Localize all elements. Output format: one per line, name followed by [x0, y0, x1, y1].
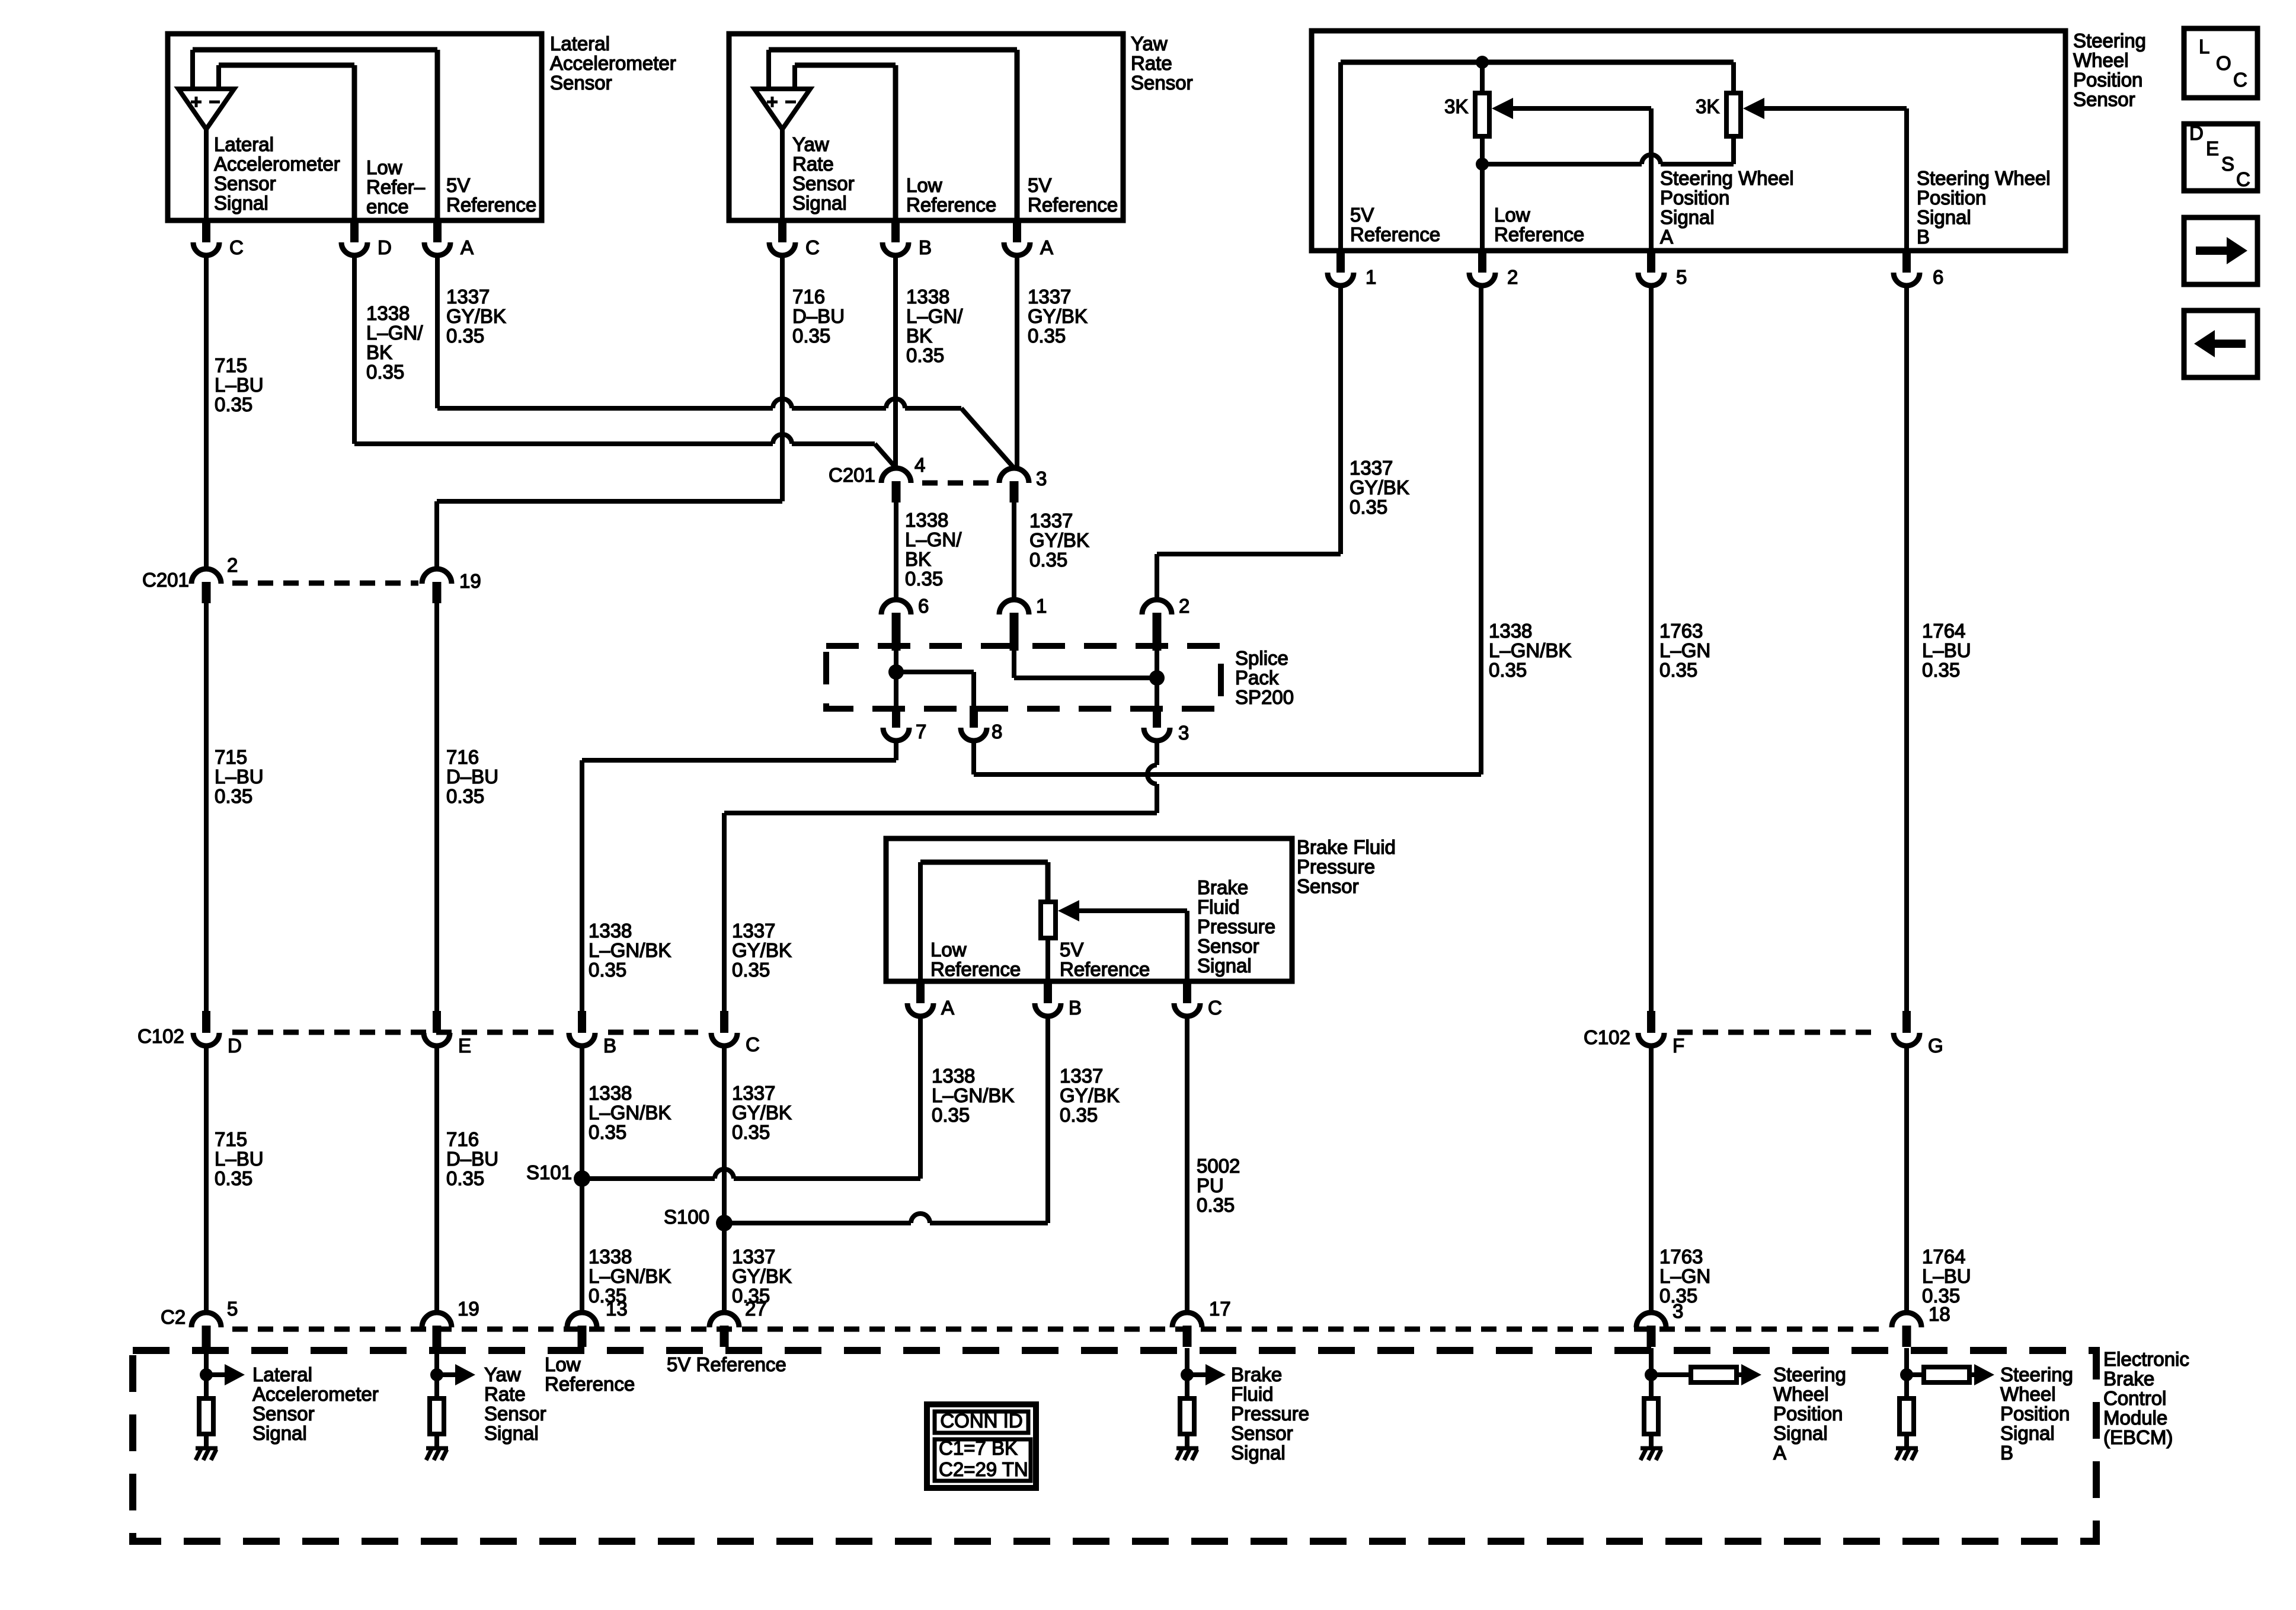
svg-text:A: A	[1773, 1442, 1786, 1464]
wiper arrow second 3K (signal B)	[1743, 98, 1764, 119]
svg-text:Reference: Reference	[1028, 194, 1118, 216]
connector pin 1 steering	[1336, 251, 1345, 273]
svg-text:5V: 5V	[1060, 939, 1083, 961]
svg-text:L–BU: L–BU	[1922, 1265, 1971, 1287]
svg-text:0.35: 0.35	[1350, 496, 1387, 518]
connector pin C yaw	[778, 220, 786, 242]
svg-text:C: C	[2236, 168, 2250, 190]
svg-text:Steering: Steering	[2000, 1363, 2073, 1385]
svg-text:L–BU: L–BU	[215, 374, 264, 396]
svg-text:0.35: 0.35	[732, 959, 770, 981]
dashed connector line C201 2-19	[232, 581, 418, 586]
svg-text:C102: C102	[137, 1025, 184, 1047]
wire 1763 steering pin5 to C102-F	[1649, 285, 1654, 1011]
svg-text:0.35: 0.35	[215, 393, 252, 415]
svg-text:Rate: Rate	[484, 1383, 526, 1405]
wiper arrow brake sensor	[1058, 900, 1079, 921]
wire S101 to brake A (hop over 1337)	[582, 1176, 715, 1181]
svg-text:BK: BK	[905, 548, 931, 570]
svg-text:L–GN: L–GN	[1659, 1265, 1710, 1287]
wire 1337 C102-C through S100 to C2-27	[722, 1046, 727, 1313]
svg-text:Steering: Steering	[2073, 30, 2146, 52]
svg-text:A: A	[1040, 236, 1053, 258]
wire: yaw signal from op-amp apex	[780, 129, 785, 220]
connector pin B yaw	[891, 220, 900, 242]
svg-text:3K: 3K	[1444, 95, 1468, 117]
svg-text:C1=7 BK: C1=7 BK	[939, 1437, 1018, 1459]
svg-text:0.35: 0.35	[905, 568, 943, 590]
svg-text:0.35: 0.35	[1659, 659, 1697, 681]
connector SP200 pin 3 (bottom)	[1153, 706, 1161, 728]
svg-text:B: B	[603, 1035, 616, 1057]
box: Electronic Brake Control Module EBCM (dashed)	[133, 1350, 2096, 1541]
wiper arrow first 3K (signal A)	[1492, 98, 1513, 119]
wire: steering low reference internal	[1480, 136, 1485, 251]
svg-text:716: 716	[446, 746, 479, 768]
svg-text:5002: 5002	[1197, 1155, 1240, 1177]
svg-text:3: 3	[1178, 722, 1189, 744]
svg-text:Steering: Steering	[1773, 1363, 1846, 1385]
svg-text:Sensor: Sensor	[550, 72, 612, 94]
wire: brake low ref internal	[918, 862, 923, 981]
splice internal low ref: 6-7-8	[894, 651, 898, 706]
svg-text:F: F	[1673, 1035, 1684, 1057]
svg-text:0.35: 0.35	[1197, 1194, 1235, 1216]
svg-text:Lateral: Lateral	[252, 1363, 312, 1385]
wire 1338 C201-4 to SP200-6	[894, 502, 898, 600]
connector C2 pin 27	[709, 1313, 739, 1327]
svg-text:S: S	[2221, 153, 2234, 175]
svg-text:18: 18	[1929, 1303, 1950, 1325]
svg-text:Pack: Pack	[1235, 667, 1279, 689]
connector SP200 pin 1	[999, 600, 1029, 614]
svg-text:Low: Low	[930, 939, 967, 961]
svg-text:1763: 1763	[1659, 1246, 1703, 1267]
svg-text:Yaw: Yaw	[484, 1363, 521, 1385]
svg-text:1: 1	[1366, 266, 1376, 288]
wire: lateral - terminal to low ref feed	[216, 65, 221, 89]
dashed connector line C102 D-E-B-C	[232, 1030, 556, 1035]
svg-text:BK: BK	[906, 325, 932, 347]
connector C102 pin G	[1902, 1011, 1911, 1033]
svg-text:L–GN/BK: L–GN/BK	[589, 1102, 671, 1124]
connector pin 6 steering	[1902, 251, 1911, 273]
svg-text:B: B	[2000, 1442, 2013, 1464]
svg-text:C: C	[2233, 69, 2247, 91]
svg-text:2: 2	[1179, 595, 1189, 617]
wire 1338 yaw B down to C201-4	[893, 254, 898, 468]
svg-text:8: 8	[992, 721, 1002, 742]
wire: steering signal A internal	[1649, 108, 1654, 251]
connector C102 pin B	[578, 1011, 586, 1033]
svg-text:Brake: Brake	[1231, 1363, 1282, 1385]
svg-text:1338: 1338	[589, 1082, 632, 1104]
svg-text:19: 19	[459, 570, 481, 592]
dashed connector line C102 F-G	[1677, 1030, 1881, 1035]
wire: brake signal internal	[1185, 911, 1189, 981]
svg-text:Accelerometer: Accelerometer	[214, 153, 340, 175]
svg-text:1337: 1337	[1028, 286, 1071, 308]
svg-text:B: B	[1917, 226, 1930, 248]
wire 1338 steering pin2 to SP200-8 horizontal	[1479, 285, 1483, 774]
box: Lateral Accelerometer Sensor	[168, 34, 542, 220]
svg-text:0.35: 0.35	[1922, 659, 1960, 681]
svg-text:C201: C201	[829, 464, 875, 486]
svg-text:1337: 1337	[732, 1246, 775, 1267]
svg-text:3: 3	[1673, 1300, 1683, 1322]
svg-text:B: B	[1069, 997, 1082, 1019]
wire 715 L-BU C201-2 to C102-D	[204, 603, 209, 1011]
wire: lateral + terminal to 5V ref feed	[190, 50, 195, 89]
connector C2 pin 5	[191, 1313, 221, 1327]
svg-text:0.35: 0.35	[215, 1167, 252, 1189]
svg-text:Sensor: Sensor	[2073, 88, 2135, 110]
svg-text:Sensor: Sensor	[1231, 1422, 1293, 1444]
wire: brake 5V internal	[1045, 938, 1050, 981]
svg-text:Position: Position	[2073, 69, 2142, 91]
connector C102 pin C	[720, 1011, 728, 1033]
wire: yaw - terminal to low ref feed	[792, 65, 797, 89]
wire 1764 steering pin6 to C102-G	[1904, 285, 1909, 1011]
svg-text:Brake: Brake	[2103, 1368, 2154, 1390]
wire 716 D-BU yaw C down, left to C201-19	[780, 254, 785, 501]
icon box arrow right	[2184, 217, 2257, 284]
wire 5002 PU brake C down to C2-17	[1185, 1016, 1189, 1313]
svg-text:1764: 1764	[1922, 620, 1965, 642]
svg-text:GY/BK: GY/BK	[1028, 305, 1088, 327]
wire: steering signal B internal	[1904, 108, 1909, 251]
wire 1337 C201-3 to SP200-1	[1012, 502, 1016, 600]
svg-text:1763: 1763	[1659, 620, 1703, 642]
connector pin D lateral	[350, 220, 359, 242]
junction: steering 5V top node	[1476, 56, 1489, 69]
svg-text:Position: Position	[1917, 187, 1986, 209]
EBCM brake fluid pressure signal input (resistor, ground, arrow)	[1185, 1348, 1189, 1398]
svg-text:GY/BK: GY/BK	[1350, 476, 1409, 498]
connector pin A yaw	[1013, 220, 1021, 242]
connector SP200 pin 7	[892, 706, 900, 728]
connector SP200 pin 2	[1142, 600, 1172, 614]
wire: steering 5V reference internal	[1338, 62, 1343, 251]
resistor 3K second (steering)	[1731, 62, 1736, 93]
connector pin C lateral	[202, 220, 210, 242]
wire 1337 yaw A down to C201-3	[1015, 254, 1019, 468]
wire SP200-8 right to steering low ref wire	[971, 741, 976, 774]
connector C2 pin 19	[422, 1313, 452, 1327]
splice internal 5V: 1-2-3	[1012, 651, 1016, 678]
svg-text:G: G	[1928, 1035, 1943, 1057]
connector C201 pin 2	[191, 569, 221, 584]
svg-text:Yaw: Yaw	[792, 133, 829, 155]
svg-text:Lateral: Lateral	[214, 133, 274, 155]
EBCM steering signal A input (series resistor, arrow, pulldown, ground)	[1649, 1348, 1654, 1398]
svg-text:Reference: Reference	[545, 1373, 635, 1395]
svg-text:GY/BK: GY/BK	[1060, 1084, 1120, 1106]
connector pin 2 steering	[1478, 251, 1486, 273]
svg-text:GY/BK: GY/BK	[732, 939, 792, 961]
connector C102 pin D	[202, 1011, 210, 1033]
svg-text:3: 3	[1036, 468, 1047, 489]
op-amp symbol yaw rate sensor	[754, 89, 810, 129]
svg-text:Low: Low	[906, 174, 942, 196]
svg-text:1338: 1338	[366, 302, 410, 324]
svg-text:3K: 3K	[1696, 95, 1719, 117]
svg-text:4: 4	[914, 454, 925, 476]
connector C2 pin 3	[1636, 1313, 1666, 1327]
svg-text:Signal: Signal	[214, 192, 268, 214]
junction S101	[574, 1170, 590, 1187]
svg-text:1338: 1338	[906, 286, 949, 308]
wire 1337 lateral A down/right to C201-3	[435, 254, 440, 408]
svg-text:19: 19	[458, 1298, 479, 1320]
svg-text:ence: ence	[366, 196, 409, 217]
svg-text:Signal: Signal	[1773, 1422, 1828, 1444]
svg-text:Sensor: Sensor	[252, 1403, 315, 1425]
svg-text:D: D	[2189, 122, 2204, 144]
box: Steering Wheel Position Sensor	[1312, 31, 2065, 251]
svg-text:7: 7	[916, 721, 926, 742]
wire: lateral signal from op-amp apex	[204, 129, 209, 220]
svg-text:D: D	[228, 1035, 242, 1057]
svg-text:Reference: Reference	[906, 194, 996, 216]
svg-text:PU: PU	[1197, 1174, 1224, 1196]
svg-text:1337: 1337	[1029, 510, 1073, 532]
svg-text:C: C	[805, 236, 820, 258]
connector C201 pin 4	[881, 468, 911, 483]
svg-text:0.35: 0.35	[589, 1121, 626, 1143]
connector pin A lateral	[433, 220, 442, 242]
svg-text:Steering Wheel: Steering Wheel	[1917, 167, 2051, 189]
dashed connector line C201 4-3	[922, 481, 996, 486]
wire 1337 steering pin1 to SP200-2	[1338, 285, 1343, 554]
svg-text:0.35: 0.35	[366, 361, 404, 383]
svg-text:S100: S100	[664, 1206, 709, 1228]
svg-text:Brake Fluid: Brake Fluid	[1297, 836, 1396, 858]
svg-text:17: 17	[1209, 1298, 1231, 1320]
svg-text:C201: C201	[142, 569, 189, 591]
svg-text:L–GN/BK: L–GN/BK	[589, 1265, 671, 1287]
svg-text:S101: S101	[526, 1161, 572, 1183]
svg-text:Signal: Signal	[1660, 206, 1715, 228]
wire 715 C102-D to C2-5	[204, 1046, 209, 1313]
svg-text:GY/BK: GY/BK	[1029, 529, 1089, 551]
icon box DESC	[2184, 124, 2257, 191]
svg-text:O: O	[2216, 52, 2231, 74]
svg-text:GY/BK: GY/BK	[732, 1265, 792, 1287]
connector pin C brake	[1183, 981, 1191, 1003]
svg-text:D: D	[378, 236, 392, 258]
svg-text:1338: 1338	[1489, 620, 1532, 642]
svg-text:1338: 1338	[932, 1065, 975, 1087]
svg-text:L–GN/BK: L–GN/BK	[589, 939, 671, 961]
svg-text:Reference: Reference	[1494, 223, 1584, 245]
svg-text:Module: Module	[2103, 1407, 2167, 1429]
svg-text:E: E	[458, 1035, 471, 1057]
svg-text:5V: 5V	[1028, 174, 1051, 196]
svg-text:1337: 1337	[732, 920, 775, 942]
svg-text:GY/BK: GY/BK	[446, 305, 506, 327]
svg-text:Wheel: Wheel	[1773, 1383, 1829, 1405]
svg-text:Wheel: Wheel	[2073, 49, 2129, 71]
dashed connector line C2	[232, 1327, 1880, 1332]
svg-text:Splice: Splice	[1235, 647, 1288, 669]
connector C2 pin 13	[567, 1313, 597, 1327]
connector pin B brake	[1044, 981, 1052, 1003]
svg-text:Fluid: Fluid	[1231, 1383, 1274, 1405]
connector SP200 pin 6	[881, 600, 911, 614]
svg-text:27: 27	[745, 1298, 767, 1320]
svg-text:Lateral: Lateral	[550, 33, 610, 55]
svg-text:0.35: 0.35	[1029, 549, 1067, 571]
svg-text:D–BU: D–BU	[446, 1148, 498, 1170]
wire S100 to brake B (hop over brake A wire)	[724, 1221, 911, 1225]
svg-text:D–BU: D–BU	[446, 766, 498, 788]
svg-text:L–GN/BK: L–GN/BK	[1489, 639, 1571, 661]
wire 1338 C102-B through S101 to C2-13	[580, 1046, 584, 1313]
svg-text:0.35: 0.35	[446, 785, 484, 807]
svg-text:0.35: 0.35	[215, 785, 252, 807]
svg-text:C: C	[229, 236, 244, 258]
svg-text:Position: Position	[1773, 1403, 1843, 1425]
svg-text:5: 5	[1676, 266, 1687, 288]
svg-text:Sensor: Sensor	[214, 172, 276, 194]
svg-text:A: A	[1660, 226, 1673, 248]
svg-text:0.35: 0.35	[932, 1104, 970, 1126]
wire 716 D-BU C201-19 to C102-E	[434, 603, 439, 1011]
svg-text:L–BU: L–BU	[1922, 639, 1971, 661]
svg-text:Low: Low	[545, 1353, 581, 1375]
svg-text:Brake: Brake	[1197, 876, 1248, 898]
svg-text:1338: 1338	[589, 920, 632, 942]
svg-text:0.35: 0.35	[732, 1121, 770, 1143]
svg-text:0.35: 0.35	[1489, 659, 1527, 681]
connector C201 pin 3	[999, 468, 1029, 483]
svg-text:C: C	[746, 1033, 760, 1055]
connector SP200 pin 8	[970, 706, 978, 728]
svg-text:C2=29 TN: C2=29 TN	[939, 1458, 1028, 1480]
wire 1338 lateral D down/right to C201-4	[352, 254, 357, 444]
junction S100	[716, 1215, 733, 1231]
svg-text:0.35: 0.35	[1060, 1104, 1098, 1126]
svg-text:Signal: Signal	[484, 1422, 539, 1444]
svg-text:1337: 1337	[446, 286, 490, 308]
svg-text:L–GN/BK: L–GN/BK	[932, 1084, 1014, 1106]
CONN ID table	[927, 1404, 1036, 1488]
connector C201 pin 19	[422, 569, 452, 584]
svg-text:Refer–: Refer–	[366, 176, 426, 198]
svg-text:Rate: Rate	[1131, 52, 1172, 74]
svg-text:5V: 5V	[446, 174, 470, 196]
svg-text:Pressure: Pressure	[1197, 916, 1275, 937]
svg-text:Accelerometer: Accelerometer	[252, 1383, 379, 1405]
svg-text:L–GN/: L–GN/	[366, 322, 423, 344]
svg-text:Fluid: Fluid	[1197, 896, 1240, 918]
wire SP200-7 left to C102-B	[894, 741, 898, 760]
resistor brake fluid sensing element	[1041, 902, 1056, 938]
wire 715 L-BU lateral C down to C201-2	[204, 254, 209, 569]
svg-text:1: 1	[1036, 595, 1047, 617]
svg-text:Low: Low	[1494, 204, 1530, 226]
svg-text:Pressure: Pressure	[1231, 1403, 1309, 1425]
svg-text:Accelerometer: Accelerometer	[550, 52, 676, 74]
svg-text:Position: Position	[1660, 187, 1729, 209]
box: Brake Fluid Pressure Sensor	[886, 838, 1292, 981]
svg-text:716: 716	[792, 286, 825, 308]
wire brake A down to S101	[918, 1016, 923, 1179]
svg-text:5: 5	[227, 1298, 238, 1320]
wire 716 C102-E to C2-19	[434, 1046, 439, 1313]
svg-text:L–GN/: L–GN/	[905, 529, 962, 550]
op-amp symbol lateral accelerometer	[178, 89, 234, 129]
svg-text:CONN ID: CONN ID	[940, 1410, 1022, 1432]
svg-text:0.35: 0.35	[792, 325, 830, 347]
svg-text:D–BU: D–BU	[792, 305, 845, 327]
svg-text:Sensor: Sensor	[1197, 935, 1259, 957]
svg-text:715: 715	[215, 746, 247, 768]
svg-text:B: B	[919, 236, 932, 258]
svg-text:(EBCM): (EBCM)	[2103, 1426, 2173, 1448]
svg-text:Signal: Signal	[2000, 1422, 2055, 1444]
icon box LOC	[2184, 28, 2257, 98]
svg-text:Sensor: Sensor	[1297, 875, 1359, 897]
svg-text:Wheel: Wheel	[2000, 1383, 2056, 1405]
svg-text:1337: 1337	[732, 1082, 775, 1104]
wire 1764 C102-G to C2-18	[1904, 1046, 1909, 1313]
svg-text:Signal: Signal	[252, 1422, 307, 1444]
svg-text:2: 2	[1507, 266, 1518, 288]
svg-text:SP200: SP200	[1235, 686, 1294, 708]
svg-text:0.35: 0.35	[1028, 325, 1066, 347]
icon box arrow left	[2184, 311, 2257, 377]
svg-text:5V Reference: 5V Reference	[667, 1353, 786, 1375]
svg-text:Rate: Rate	[792, 153, 834, 175]
wire: low ref node to second resistor bottom	[1482, 162, 1642, 167]
wire 1763 C102-F to C2-3	[1649, 1046, 1654, 1313]
svg-text:C: C	[1208, 997, 1222, 1019]
connector C2 pin 18	[1892, 1313, 1921, 1327]
svg-text:BK: BK	[366, 341, 392, 363]
box: Yaw Rate Sensor	[729, 34, 1123, 220]
svg-text:A: A	[941, 997, 954, 1019]
svg-text:Reference: Reference	[1350, 223, 1440, 245]
svg-text:Sensor: Sensor	[792, 172, 855, 194]
svg-text:6: 6	[1933, 266, 1943, 288]
svg-text:5V: 5V	[1350, 204, 1374, 226]
svg-text:C2: C2	[161, 1306, 186, 1328]
svg-text:E: E	[2206, 137, 2219, 159]
svg-text:0.35: 0.35	[589, 959, 626, 981]
svg-text:Reference: Reference	[1060, 958, 1150, 980]
connector pin 5 steering	[1647, 251, 1655, 273]
svg-text:1764: 1764	[1922, 1246, 1965, 1267]
svg-text:Sensor: Sensor	[484, 1403, 546, 1425]
svg-text:L–BU: L–BU	[215, 1148, 264, 1170]
svg-text:Pressure: Pressure	[1297, 856, 1375, 878]
svg-text:715: 715	[215, 354, 247, 376]
svg-text:Reference: Reference	[446, 194, 536, 216]
svg-text:1337: 1337	[1060, 1065, 1103, 1087]
svg-text:Signal: Signal	[1917, 206, 1971, 228]
wire: yaw + terminal to 5V ref feed	[766, 50, 771, 89]
svg-text:Control: Control	[2103, 1387, 2166, 1409]
connector C102 pin E	[433, 1011, 441, 1033]
svg-text:L–GN/: L–GN/	[906, 305, 963, 327]
svg-text:1338: 1338	[905, 509, 948, 531]
svg-text:6: 6	[918, 595, 929, 617]
svg-text:13: 13	[606, 1298, 628, 1320]
EBCM yaw rate signal input (resistor, ground, arrow)	[434, 1348, 439, 1398]
connector C102 pin F	[1647, 1011, 1655, 1033]
